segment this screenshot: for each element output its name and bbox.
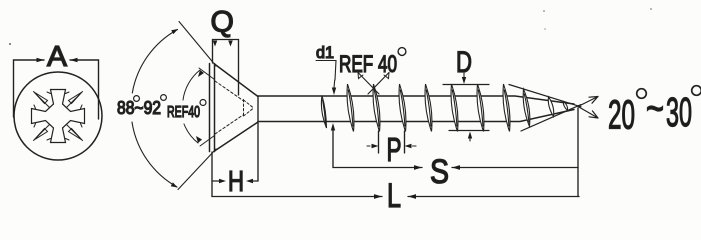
angle arc 88-92 upper: [132, 30, 177, 94]
D arrow down: [462, 77, 466, 84]
svg-text:L: L: [387, 177, 401, 215]
taper blade 3: [563, 102, 567, 111]
P arrow left: [372, 144, 379, 148]
dimension A arrow right: [70, 58, 78, 62]
arc arrow top: [171, 29, 178, 34]
blade 3: [373, 84, 380, 132]
speck 3: [544, 28, 546, 30]
tip vertical extension: [577, 108, 579, 197]
dimension L extension left: [211, 152, 213, 197]
thread crest blades: [321, 84, 567, 132]
D bottom tick: [449, 130, 489, 132]
S arrow right: [414, 165, 422, 170]
svg-text:P: P: [387, 131, 402, 168]
thread angle leg right: [368, 73, 389, 95]
ref40 arc upper: [183, 70, 200, 100]
taper envelope top: [509, 85, 581, 107]
D arrow up: [468, 132, 472, 139]
d1 arrow up: [331, 123, 335, 131]
pozidriv tick SE: [65, 123, 83, 141]
pozidriv tick SW: [34, 123, 52, 141]
ref40 arc arrow bottom: [196, 136, 202, 143]
thread start blade: [321, 96, 326, 129]
head side view face: [210, 64, 215, 152]
recess dashed top flank: [215, 81, 243, 101]
dimension A arrow left: [37, 58, 45, 62]
recess dashed bottom flank: [215, 115, 243, 134]
speck 1: [9, 43, 11, 45]
dimension P extension right: [404, 131, 406, 153]
svg-text:S: S: [430, 153, 449, 191]
L arrow left: [408, 194, 416, 199]
recess dashed tip top: [244, 100, 254, 108]
taper blade 2: [548, 97, 553, 117]
head front view circle: [14, 72, 102, 160]
dimension P extension left: [378, 131, 380, 153]
taper envelope bottom: [521, 105, 581, 131]
head cone bottom flank: [215, 122, 259, 151]
D leader down: [463, 73, 465, 78]
P arrow right: [405, 144, 412, 148]
shank top root line: [258, 96, 574, 104]
thread angle arrow left: [358, 73, 363, 79]
ref40 arc lower: [184, 124, 198, 143]
Q arrow 1: [213, 41, 218, 47]
speck 4: [650, 8, 652, 10]
angle leg top: [179, 22, 216, 67]
recess dashed end: [243, 100, 245, 117]
pozidriv tick NW: [34, 92, 52, 110]
svg-text:H: H: [228, 166, 244, 198]
svg-text:d1: d1: [316, 43, 334, 62]
svg-text:~: ~: [646, 85, 664, 131]
angle leg bottom: [178, 149, 216, 190]
pozidriv recess cross: [32, 90, 85, 143]
d1 arrow down: [332, 88, 336, 96]
speck 2: [543, 10, 545, 12]
thread angle arrow right: [384, 73, 389, 79]
head cone top flank: [215, 64, 259, 97]
svg-text:REF40: REF40: [167, 104, 200, 121]
dimension H line right: [250, 180, 258, 182]
L arrow right: [374, 194, 382, 199]
S line right: [452, 167, 578, 169]
recess cone ext bottom: [200, 136, 215, 147]
svg-text:Q: Q: [211, 6, 234, 39]
D top tick: [443, 84, 489, 86]
thread angle leg left: [358, 73, 379, 95]
arc arrow bottom: [171, 182, 178, 187]
blade 7: [477, 84, 484, 132]
angle arc 88-92 lower: [132, 122, 177, 187]
dimension H line left: [212, 180, 222, 182]
svg-text:20: 20: [608, 92, 635, 138]
dimension A bracket: [14, 60, 99, 119]
blade 5: [425, 84, 432, 132]
dimension S extension: [333, 128, 422, 168]
svg-text:30: 30: [666, 89, 692, 135]
tip angle leg upper: [578, 97, 598, 107]
recess cone ext top: [199, 68, 215, 80]
H arrow right: [246, 179, 253, 183]
Q arrow 2: [228, 41, 233, 47]
recess dashed tip bottom: [244, 109, 254, 117]
head shank junction vertical: [257, 97, 259, 182]
S arrow left: [452, 165, 460, 170]
tip angle leg lower: [578, 107, 598, 119]
pozidriv tick NE: [65, 92, 83, 110]
d1 leader: [316, 61, 336, 81]
H arrow left: [219, 179, 226, 183]
shank bottom root line: [258, 110, 574, 122]
svg-text:A: A: [47, 41, 68, 73]
blade 8: [503, 84, 510, 132]
L line left: [212, 196, 382, 198]
L line right: [408, 196, 579, 198]
ref40 arc arrow top: [198, 70, 204, 77]
blade 4: [399, 84, 406, 132]
taper blade 1: [523, 89, 530, 126]
dimension Q line: [213, 40, 239, 96]
blade 2: [347, 84, 354, 132]
blade 6: [451, 84, 458, 132]
